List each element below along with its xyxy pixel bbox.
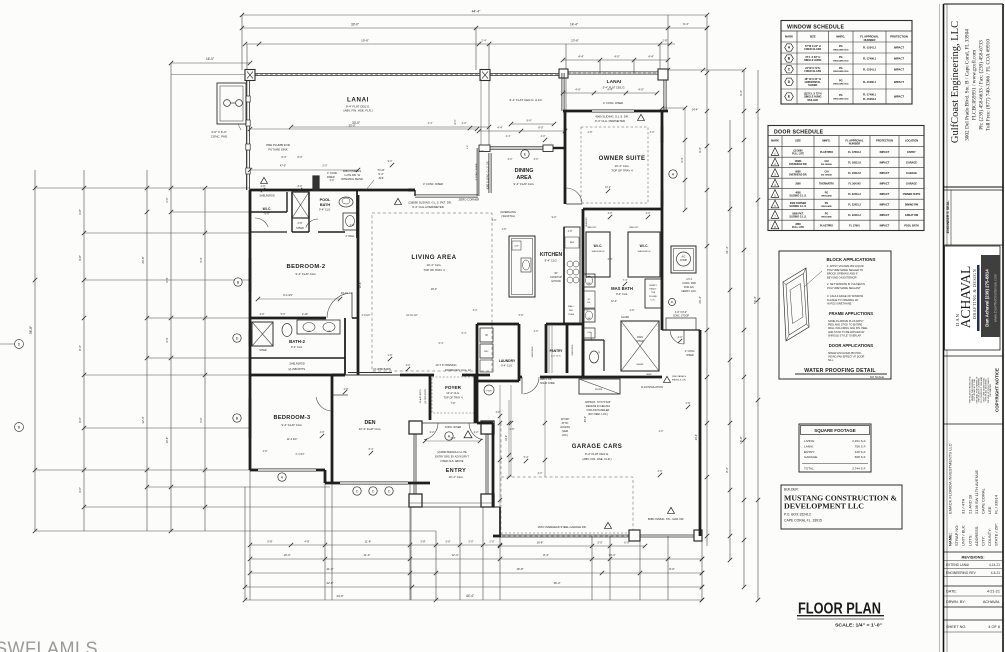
svg-text:IMPACT: IMPACT bbox=[894, 80, 904, 84]
svg-text:INTEGRAL BLIND: INTEGRAL BLIND bbox=[341, 177, 363, 181]
svg-text:56'-4": 56'-4" bbox=[753, 296, 757, 304]
svg-text:2'-0": 2'-0" bbox=[323, 165, 328, 168]
svg-text:10'-4" CLG.: 10'-4" CLG. bbox=[427, 263, 442, 267]
svg-text:2880 PKT.: 2880 PKT. bbox=[587, 227, 597, 229]
svg-text:2'-8": 2'-8" bbox=[686, 402, 691, 405]
den barn door wall bbox=[332, 374, 345, 377]
svg-text:5'-8": 5'-8" bbox=[267, 540, 272, 544]
svg-text:4'-0": 4'-0" bbox=[678, 336, 683, 339]
svg-text:WATER PROOFING DETAIL: WATER PROOFING DETAIL bbox=[804, 368, 876, 374]
svg-text:FL 22431.2: FL 22431.2 bbox=[848, 193, 861, 196]
svg-text:FRAME APPLICTIONS: FRAME APPLICTIONS bbox=[829, 311, 873, 316]
svg-text:FLCBC059991 / www.gcefl.com: FLCBC059991 / www.gcefl.com bbox=[971, 49, 978, 120]
svg-text:2'-8": 2'-8" bbox=[261, 185, 266, 188]
svg-text:4" CONC. RISER: 4" CONC. RISER bbox=[476, 163, 478, 180]
svg-text:DRY.: DRY. bbox=[484, 351, 489, 353]
svg-text:4'-0" CLG.: 4'-0" CLG. bbox=[551, 356, 561, 358]
svg-text:2'-8": 2'-8" bbox=[350, 224, 355, 227]
svg-text:VIDING PAN EFFECT AT DOOR: VIDING PAN EFFECT AT DOOR bbox=[828, 356, 865, 359]
svg-text:16X0 OVERHEAD STEEL GARAGE DR.: 16X0 OVERHEAD STEEL GARAGE DR. bbox=[538, 525, 587, 529]
svg-text:IMPACT: IMPACT bbox=[894, 67, 904, 71]
svg-text:14'-4": 14'-4" bbox=[570, 23, 578, 27]
svg-text:9'-4" FLAT CEIL'G. A.F.F.: 9'-4" FLAT CEIL'G. A.F.F. bbox=[509, 98, 542, 102]
svg-text:14'-4": 14'-4" bbox=[692, 108, 699, 112]
garage door triangle bbox=[664, 376, 671, 382]
svg-text:11'-4 3/4": 11'-4 3/4" bbox=[287, 437, 298, 441]
entry mark A bbox=[445, 432, 453, 440]
svg-text:GARAGE: GARAGE bbox=[906, 161, 917, 164]
svg-text:WINGUARD 5500: WINGUARD 5500 bbox=[833, 70, 848, 73]
svg-text:BLOCK APPLICATIONS: BLOCK APPLICATIONS bbox=[826, 257, 875, 262]
svg-text:6'-4": 6'-4" bbox=[439, 342, 444, 345]
svg-text:GARAGE: GARAGE bbox=[906, 182, 917, 185]
svg-text:PROHIBITED.: PROHIBITED. bbox=[990, 383, 992, 397]
svg-text:TOP OF TRAY 4: TOP OF TRAY 4 bbox=[443, 396, 463, 400]
svg-text:3'-0": 3'-0" bbox=[445, 540, 450, 544]
tub bbox=[645, 279, 661, 308]
svg-text:2'-8": 2'-8" bbox=[588, 131, 593, 134]
svg-text:OVERHEAD DR.: OVERHEAD DR. bbox=[789, 163, 808, 166]
svg-text:3'-0": 3'-0" bbox=[658, 470, 663, 473]
svg-text:COUNTY:: COUNTY: bbox=[987, 528, 992, 546]
svg-text:9'-8": 9'-8" bbox=[78, 255, 82, 261]
svg-text:9'-4" CLG.: 9'-4" CLG. bbox=[501, 365, 513, 368]
svg-text:GARAGE:: GARAGE: bbox=[804, 455, 818, 459]
triangle mark lanai bbox=[261, 177, 268, 183]
svg-text:10'-4" CLG.: 10'-4" CLG. bbox=[449, 475, 464, 479]
svg-text:GulfCoast Engineering, LLC: GulfCoast Engineering, LLC bbox=[950, 21, 961, 143]
svg-text:MAS BATH: MAS BATH bbox=[611, 286, 633, 291]
svg-text:2'-8": 2'-8" bbox=[630, 309, 635, 312]
svg-text:LAV: LAV bbox=[307, 330, 312, 333]
waterproofing detail box bbox=[779, 251, 891, 379]
window mark A bbox=[669, 170, 677, 178]
svg-text:C: C bbox=[372, 489, 375, 493]
lanai column 1 bbox=[245, 70, 255, 81]
svg-text:CITY:: CITY: bbox=[981, 536, 986, 546]
svg-text:TUB: TUB bbox=[651, 292, 656, 294]
svg-text:30'-4": 30'-4" bbox=[584, 416, 587, 422]
svg-text:FIXED GLS. ABOVE: FIXED GLS. ABOVE bbox=[441, 460, 464, 463]
svg-text:1. APPLY VULKEM 350 LIQUID: 1. APPLY VULKEM 350 LIQUID bbox=[827, 264, 864, 268]
exterior wall house front (lanai side) bbox=[250, 189, 415, 192]
svg-text:4" CONC: 4" CONC bbox=[327, 172, 338, 175]
svg-text:OVERHEAD DR.: OVERHEAD DR. bbox=[789, 174, 808, 177]
svg-text:2'-0": 2'-0" bbox=[489, 540, 494, 544]
svg-text:SLIDING G.L.S.: SLIDING G.L.S. bbox=[789, 195, 807, 198]
svg-text:SLIDER: SLIDER bbox=[808, 84, 817, 87]
svg-text:4-21-21: 4-21-21 bbox=[987, 590, 1000, 594]
svg-text:ENTRY:: ENTRY: bbox=[804, 450, 815, 454]
svg-text:9'-4": 9'-4" bbox=[739, 90, 743, 96]
owner side dim bbox=[684, 108, 686, 210]
svg-text:Toll Free: (877) 740-3366 / FL: Toll Free: (877) 740-3366 / FL COA #9910 bbox=[985, 39, 992, 131]
svg-text:PWR: PWR bbox=[486, 391, 492, 393]
svg-text:MNFG.: MNFG. bbox=[822, 139, 831, 143]
svg-text:9'-0": 9'-0" bbox=[78, 417, 82, 423]
lanai screen wall top bbox=[255, 72, 563, 74]
svg-text:6'-4 3/4": 6'-4 3/4" bbox=[296, 453, 305, 456]
triangle mark living door bbox=[395, 198, 402, 204]
svg-text:4'-0": 4'-0" bbox=[638, 88, 644, 92]
owner suite tray dashed bbox=[581, 127, 648, 203]
svg-text:SHWR: SHWR bbox=[259, 349, 267, 352]
svg-text:P.O. BOX 152412: P.O. BOX 152412 bbox=[784, 513, 811, 517]
window mark A bed3 bbox=[278, 473, 286, 481]
svg-text:ENGINEER'S SEAL: ENGINEER'S SEAL bbox=[946, 200, 950, 233]
svg-text:9'-4" FLAT CLG.: 9'-4" FLAT CLG. bbox=[282, 423, 303, 427]
svg-text:DINING RM: DINING RM bbox=[905, 203, 918, 206]
svg-text:SHELVING: SHELVING bbox=[572, 344, 574, 355]
svg-text:10'-10 1/2": 10'-10 1/2" bbox=[406, 314, 418, 317]
svg-text:SOLID CORE: SOLID CORE bbox=[540, 382, 555, 385]
svg-text:WINGUARD 5500: WINGUARD 5500 bbox=[833, 83, 848, 86]
svg-text:9'-4": 9'-4" bbox=[683, 22, 689, 26]
svg-text:( SHUFTAL): ( SHUFTAL) bbox=[501, 214, 515, 218]
svg-text:FL 17843.2: FL 17843.2 bbox=[848, 151, 861, 154]
svg-text:FL 16012.8: FL 16012.8 bbox=[848, 172, 861, 175]
svg-text:5040 PKT.: 5040 PKT. bbox=[591, 331, 593, 341]
dining sliding west bbox=[488, 153, 490, 193]
svg-text:TOP OF TRAY 4: TOP OF TRAY 4 bbox=[611, 169, 633, 173]
svg-text:SLIDING G.L.S.: SLIDING G.L.S. bbox=[789, 205, 807, 208]
svg-text:OVEN: OVEN bbox=[568, 314, 575, 316]
svg-text:WINGUARD: WINGUARD bbox=[821, 216, 832, 219]
svg-text:SAME AS ABOVE PLUS APPLY: SAME AS ABOVE PLUS APPLY bbox=[828, 320, 864, 323]
svg-text:9'-4" FLAT CLG.: 9'-4" FLAT CLG. bbox=[296, 272, 317, 276]
svg-text:3'-0": 3'-0" bbox=[646, 212, 651, 215]
right lanai column west bbox=[559, 69, 568, 78]
svg-text:4'-6" X 8'-0": 4'-6" X 8'-0" bbox=[675, 312, 687, 314]
svg-text:WINDOW SCHEDULE: WINDOW SCHEDULE bbox=[787, 25, 844, 31]
svg-text:SHINGLE STYLE" OVERLAP.: SHINGLE STYLE" OVERLAP. bbox=[828, 334, 862, 337]
svg-text:4'-4": 4'-4" bbox=[506, 135, 511, 138]
svg-text:IMPACT: IMPACT bbox=[880, 223, 890, 227]
svg-text:9'-0": 9'-0" bbox=[388, 160, 393, 163]
svg-text:IMPACT: IMPACT bbox=[894, 57, 904, 61]
linen bbox=[583, 328, 595, 338]
washer dryer bbox=[480, 328, 493, 342]
closet door arc bbox=[255, 218, 268, 227]
extension lines left bbox=[35, 187, 250, 189]
lanai column 2 bbox=[480, 70, 490, 81]
svg-text:4060 SLIDING. G.L.S. DR.: 4060 SLIDING. G.L.S. DR. bbox=[595, 115, 628, 119]
svg-text:PEEL AND STICK TO ENTIRE: PEEL AND STICK TO ENTIRE bbox=[828, 324, 862, 327]
svg-text:MNFG.: MNFG. bbox=[836, 35, 845, 39]
svg-text:REF: REF bbox=[570, 242, 575, 244]
svg-text:14'-4": 14'-4" bbox=[605, 186, 611, 189]
hall top wall bbox=[477, 323, 519, 326]
svg-text:GLAZD: GLAZD bbox=[621, 316, 629, 319]
svg-text:GLAZD BYPS.: GLAZD BYPS. bbox=[419, 388, 422, 403]
svg-text:10'-0": 10'-0" bbox=[505, 435, 508, 441]
pool bath vanity bbox=[343, 213, 357, 230]
svg-text:21'-4": 21'-4" bbox=[695, 434, 698, 440]
svg-text:ACHAVAL: ACHAVAL bbox=[958, 266, 973, 329]
svg-text:LEE: LEE bbox=[987, 506, 992, 514]
svg-text:4'-4": 4'-4" bbox=[497, 126, 502, 130]
svg-text:126 S.F.: 126 S.F. bbox=[855, 450, 866, 454]
svg-text:(2) 2680 BYPS.: (2) 2680 BYPS. bbox=[425, 388, 427, 404]
svg-text:SEAT: SEAT bbox=[646, 373, 652, 376]
svg-text:FL 17841: FL 17841 bbox=[849, 224, 860, 227]
svg-text:31'-4": 31'-4" bbox=[725, 246, 729, 254]
garage corner bbox=[694, 530, 702, 541]
svg-text:24'-0": 24'-0" bbox=[336, 594, 343, 598]
garage rear door arc bbox=[670, 331, 684, 344]
triangle mark owner door bbox=[638, 114, 645, 120]
svg-text:9'-4": 9'-4" bbox=[378, 172, 383, 176]
rain shower bbox=[621, 321, 659, 371]
svg-text:PLASTPRO: PLASTPRO bbox=[820, 151, 833, 154]
svg-text:3'-0": 3'-0" bbox=[650, 131, 655, 134]
svg-text:TV AT: TV AT bbox=[377, 168, 385, 172]
extension lines top bbox=[241, 15, 243, 70]
svg-text:CONC. RISER: CONC. RISER bbox=[445, 426, 462, 429]
svg-text:9'-4": 9'-4" bbox=[527, 120, 532, 123]
svg-text:4'-0": 4'-0" bbox=[492, 219, 497, 222]
svg-text:9'-4" CLG. PERIMETER: 9'-4" CLG. PERIMETER bbox=[595, 119, 625, 123]
svg-text:RISER: RISER bbox=[686, 355, 693, 357]
svg-text:4 OF 6: 4 OF 6 bbox=[988, 625, 1000, 629]
pwdr circle bbox=[484, 385, 494, 395]
svg-text:9'-4": 9'-4" bbox=[199, 257, 203, 262]
svg-text:TOTAL:: TOTAL: bbox=[804, 467, 815, 471]
svg-text:IMPACT: IMPACT bbox=[880, 150, 890, 154]
svg-text:3'-4": 3'-4" bbox=[584, 309, 589, 312]
svg-text:33'-0": 33'-0" bbox=[348, 124, 355, 128]
wic right bbox=[628, 232, 660, 277]
svg-text:9'-4" CLG.a PERIMETER: 9'-4" CLG.a PERIMETER bbox=[412, 205, 444, 209]
svg-text:4-14-21: 4-14-21 bbox=[989, 563, 1000, 567]
bed3 south wall window bbox=[250, 469, 258, 472]
svg-text:LAV: LAV bbox=[327, 330, 332, 333]
svg-text:ENGINEERING REV: ENGINEERING REV bbox=[946, 571, 977, 575]
svg-text:36'-4": 36'-4" bbox=[698, 296, 702, 304]
svg-text:4" CONC. RISER: 4" CONC. RISER bbox=[603, 101, 623, 105]
svg-text:DRWN. BY:: DRWN. BY: bbox=[946, 600, 966, 604]
svg-text:20"X28": 20"X28" bbox=[561, 418, 570, 421]
svg-text:3'-4": 3'-4" bbox=[467, 145, 469, 150]
svg-text:NUMBER: NUMBER bbox=[849, 142, 861, 146]
svg-text:PRE PLUMB FOR: PRE PLUMB FOR bbox=[266, 143, 290, 147]
svg-text:2136 SW 11TH AVENUE: 2136 SW 11TH AVENUE bbox=[974, 470, 979, 514]
svg-text:7'-4": 7'-4" bbox=[623, 279, 628, 282]
svg-text:4'-0" X 6'-0": 4'-0" X 6'-0" bbox=[211, 130, 227, 134]
svg-text:STRAP NO:: STRAP NO: bbox=[954, 525, 959, 547]
svg-text:NO SCALE: NO SCALE bbox=[870, 375, 884, 379]
mas wc bbox=[590, 351, 599, 363]
svg-text:MUSTANG CONSTRUCTION &: MUSTANG CONSTRUCTION & bbox=[784, 496, 897, 503]
svg-text:CAPE CORAL FL. 33915: CAPE CORAL FL. 33915 bbox=[784, 519, 822, 523]
svg-text:2'-0": 2'-0" bbox=[538, 472, 543, 475]
foyer tray dashed bbox=[432, 377, 475, 413]
svg-text:5'-4": 5'-4" bbox=[524, 456, 529, 459]
svg-text:IND. BREAK: IND. BREAK bbox=[821, 163, 833, 166]
svg-text:IN POLYURETHANE: IN POLYURETHANE bbox=[827, 302, 852, 306]
svg-text:WALL INCLUDING NAIL FIN. PEEL: WALL INCLUDING NAIL FIN. PEEL bbox=[828, 327, 868, 330]
owner east windows bbox=[660, 126, 662, 143]
entry triangle bbox=[464, 431, 472, 438]
svg-text:10'-4" FLAT CLG.: 10'-4" FLAT CLG. bbox=[359, 427, 382, 431]
svg-text:POLYURETHANE SEALANT: POLYURETHANE SEALANT bbox=[827, 286, 861, 290]
foyer-east/hall wall bbox=[476, 381, 479, 423]
svg-text:SPEAR &/VULKEM 350 PRO-: SPEAR &/VULKEM 350 PRO- bbox=[828, 352, 862, 355]
svg-text:(OVERHANG: (OVERHANG bbox=[500, 210, 516, 214]
garage east wall bbox=[699, 330, 702, 536]
svg-text:ADDRESS:: ADDRESS: bbox=[974, 526, 979, 546]
svg-text:VERIFY LOC.: VERIFY LOC. bbox=[681, 290, 697, 293]
svg-text:FOR AIR HANDLER: FOR AIR HANDLER bbox=[587, 409, 610, 412]
svg-text:COPYRIGHT NOTICE: COPYRIGHT NOTICE bbox=[995, 368, 1000, 412]
svg-text:SILL.: SILL. bbox=[828, 359, 834, 362]
pool bath walls bbox=[318, 231, 345, 233]
svg-text:7'-0": 7'-0" bbox=[451, 402, 456, 405]
right lanai side walls bbox=[561, 73, 563, 111]
svg-text:2'-8": 2'-8" bbox=[568, 230, 573, 233]
svg-text:IMPACT: IMPACT bbox=[880, 213, 890, 217]
svg-text:Dan Achaval (239) 275-8814: Dan Achaval (239) 275-8814 bbox=[985, 269, 990, 327]
pool bath toilet bbox=[339, 197, 353, 207]
svg-text:THERMATRU: THERMATRU bbox=[819, 182, 834, 185]
svg-text:FL-15363.2: FL-15363.2 bbox=[863, 98, 877, 101]
closet shelf&rod bed2 bbox=[250, 211, 287, 213]
svg-text:9'-4": 9'-4" bbox=[681, 157, 684, 162]
svg-text:LANAI: LANAI bbox=[347, 97, 369, 104]
svg-text:PG: PG bbox=[839, 56, 843, 59]
svg-text:CAPE CORAL: CAPE CORAL bbox=[981, 487, 986, 514]
left circle mark B bbox=[15, 423, 24, 432]
svg-text:10'-4" CLG.: 10'-4" CLG. bbox=[615, 164, 630, 168]
svg-text:SHELF&ROD: SHELF&ROD bbox=[638, 251, 651, 253]
svg-text:12'-4": 12'-4" bbox=[611, 300, 617, 303]
entry porch side walls bbox=[413, 434, 415, 494]
svg-text:FOR A/C: FOR A/C bbox=[684, 286, 694, 289]
svg-text:3. CAULK EDGE OF WINDOW: 3. CAULK EDGE OF WINDOW bbox=[827, 294, 864, 298]
svg-text:Ph: (239) 458-6633 / Fax: (239: Ph: (239) 458-6633 / Fax: (239) 458-6733 bbox=[978, 40, 985, 130]
svg-text:5'-0": 5'-0" bbox=[281, 313, 286, 316]
svg-text:IMPACT: IMPACT bbox=[894, 46, 904, 50]
svg-text:6'-0": 6'-0" bbox=[282, 156, 287, 159]
builder box bbox=[781, 485, 902, 529]
bed3 door arc bbox=[316, 397, 332, 411]
svg-text:10'-8": 10'-8" bbox=[165, 437, 169, 444]
mas suite west wall bbox=[582, 209, 585, 377]
svg-text:FULL LITE: FULL LITE bbox=[792, 153, 804, 156]
svg-text:18'-0": 18'-0" bbox=[431, 288, 437, 291]
svg-text:PG: PG bbox=[839, 45, 843, 48]
svg-text:PG: PG bbox=[825, 202, 829, 205]
svg-text:8'-4": 8'-4" bbox=[725, 467, 729, 473]
svg-text:23'-8": 23'-8" bbox=[571, 39, 579, 43]
svg-text:1'-8": 1'-8" bbox=[502, 228, 507, 231]
title block border bbox=[939, 4, 941, 652]
kitchen counter bbox=[564, 227, 580, 323]
svg-text:FIXED GLASS: FIXED GLASS bbox=[804, 70, 821, 73]
garage interior dim bbox=[508, 400, 510, 477]
square footage table bbox=[799, 424, 871, 472]
window perspective sketch bbox=[783, 268, 809, 341]
laundry walls bbox=[476, 324, 479, 381]
svg-text:FL / 33914: FL / 33914 bbox=[994, 494, 999, 514]
circle mark bbox=[669, 299, 676, 306]
svg-text:2'-0": 2'-0" bbox=[608, 258, 613, 261]
svg-text:CONC. PAD: CONC. PAD bbox=[682, 282, 696, 285]
svg-text:3'-0": 3'-0" bbox=[406, 364, 411, 367]
svg-text:(ABV. FIN. HSE. FLR.): (ABV. FIN. HSE. FLR.) bbox=[582, 457, 611, 461]
svg-text:WINGUARD: WINGUARD bbox=[821, 205, 832, 208]
svg-text:4'-4": 4'-4" bbox=[578, 55, 584, 59]
svg-text:20'-8": 20'-8" bbox=[141, 256, 145, 263]
svg-text:IMPACT: IMPACT bbox=[880, 181, 890, 185]
svg-text:C: C bbox=[388, 489, 391, 493]
svg-text:6'-0": 6'-0" bbox=[265, 213, 270, 216]
svg-text:4'-4": 4'-4" bbox=[428, 122, 433, 125]
svg-text:(2)3080 PERGOLA 1-LITE: (2)3080 PERGOLA 1-LITE bbox=[437, 451, 467, 454]
svg-text:STATE / ZIP:: STATE / ZIP: bbox=[994, 523, 999, 546]
svg-text:2880: 2880 bbox=[795, 182, 801, 185]
svg-text:PROTECTION: PROTECTION bbox=[890, 35, 908, 39]
svg-text:MULLED: MULLED bbox=[808, 99, 819, 102]
svg-text:PLASTPRO: PLASTPRO bbox=[820, 224, 833, 227]
svg-text:BATH-2: BATH-2 bbox=[289, 339, 305, 344]
svg-text:FIBRGLS. DR.: FIBRGLS. DR. bbox=[672, 380, 687, 382]
svg-text:OWNER SUITE: OWNER SUITE bbox=[903, 193, 921, 196]
svg-text:2'-8": 2'-8" bbox=[388, 354, 393, 357]
garage pier bbox=[629, 530, 640, 541]
svg-text:LOC.: LOC. bbox=[650, 300, 655, 302]
svg-text:2'-8": 2'-8" bbox=[662, 39, 667, 43]
svg-text:EMACK FLORIDA INVESTMENTS LLC: EMACK FLORIDA INVESTMENTS LLC bbox=[948, 443, 953, 514]
svg-text:DINING: DINING bbox=[515, 168, 534, 174]
svg-text:(ABV. FIN. HSE. FLR.): (ABV. FIN. HSE. FLR.) bbox=[343, 109, 372, 113]
svg-text:GREAT RM: GREAT RM bbox=[905, 214, 918, 217]
svg-text:16'-8": 16'-8" bbox=[537, 541, 544, 545]
svg-text:8'-4": 8'-4" bbox=[369, 448, 374, 451]
bath2 toilet bbox=[282, 324, 292, 337]
svg-text:CHI: CHI bbox=[824, 170, 828, 173]
bath2/closet wall bbox=[250, 357, 345, 359]
svg-text:(INT /VERI. LOC.): (INT /VERI. LOC.) bbox=[588, 413, 608, 416]
svg-text:BUILDER:: BUILDER: bbox=[784, 488, 799, 492]
svg-text:5'-8": 5'-8" bbox=[519, 314, 524, 317]
svg-text:4'-0": 4'-0" bbox=[534, 330, 539, 333]
svg-text:9'-4" FLAT CEIL'G.: 9'-4" FLAT CEIL'G. bbox=[585, 452, 609, 456]
entry door arcs bbox=[424, 423, 438, 440]
svg-text:SLIDING G.L.S.: SLIDING G.L.S. bbox=[789, 216, 807, 219]
svg-text:FLANGE TO OPENING W/: FLANGE TO OPENING W/ bbox=[827, 298, 858, 302]
svg-text:2'-8 1/2": 2'-8 1/2" bbox=[362, 314, 371, 317]
svg-text:SIZE: SIZE bbox=[795, 139, 801, 143]
svg-text:RECESS IN CEILING: RECESS IN CEILING bbox=[586, 405, 610, 408]
window mark B bed3 bbox=[233, 414, 241, 422]
svg-text:REVISIONS:: REVISIONS: bbox=[961, 555, 984, 560]
svg-text:AREA: AREA bbox=[516, 175, 531, 181]
svg-text:8'-0": 8'-0" bbox=[669, 567, 675, 571]
svg-text:8'-4": 8'-4" bbox=[78, 345, 82, 351]
extension lines bottom bbox=[249, 470, 251, 600]
svg-text:VERIFY: VERIFY bbox=[649, 285, 657, 287]
svg-text:10'-4": 10'-4" bbox=[283, 553, 290, 557]
powder bbox=[582, 340, 585, 377]
svg-text:FULL LITE: FULL LITE bbox=[792, 226, 804, 229]
svg-text:D: D bbox=[236, 336, 239, 340]
svg-text:8080 OVRHD. STL. GAR. DR.: 8080 OVRHD. STL. GAR. DR. bbox=[648, 517, 685, 521]
svg-text:& HOOD: & HOOD bbox=[551, 280, 561, 283]
pool bath shower bbox=[292, 192, 309, 218]
svg-text:9'-4" CLG.: 9'-4" CLG. bbox=[291, 345, 303, 349]
svg-text:BEDROOM-2: BEDROOM-2 bbox=[286, 264, 325, 270]
